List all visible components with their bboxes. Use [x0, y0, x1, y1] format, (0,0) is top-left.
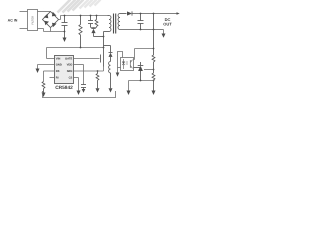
- svg-text:VIN: VIN: [56, 58, 61, 61]
- node C3 bottom: [140, 29, 142, 31]
- optocoupler U2: [121, 58, 134, 71]
- diode D4 aux: [104, 46, 113, 62]
- capacitor C2 snubber: [88, 16, 93, 28]
- wire GND pin: [38, 65, 55, 69]
- wire Q1 source: [103, 67, 105, 72]
- transformer T1 core: [114, 14, 116, 34]
- wire opto emitter: [118, 67, 121, 69]
- resistor R3 FB: [42, 82, 45, 93]
- ground CS pin: [77, 91, 81, 96]
- bridge rectifier BD1: [43, 12, 59, 28]
- transformer T1 secondary: [118, 14, 164, 30]
- resistor R5 divider upper: [152, 14, 155, 74]
- ground GND pin: [36, 69, 40, 74]
- node startup junction: [80, 47, 82, 49]
- ground primary at C1: [63, 38, 67, 43]
- wire filter to bridge top: [38, 11, 51, 13]
- wire FB pin: [44, 71, 55, 82]
- resistor R1 startup: [79, 16, 82, 48]
- wire bridge + output to rail: [59, 16, 61, 20]
- svg-text:CR5842: CR5842: [55, 85, 73, 91]
- watermark diagonal stripes: [58, 0, 101, 13]
- capacitor C4 VDD: [81, 85, 86, 90]
- node C2 rail: [90, 15, 92, 17]
- node LED bias: [153, 48, 155, 50]
- svg-text:SEN: SEN: [67, 70, 73, 73]
- ground R4: [96, 88, 100, 92]
- label DC OUT: [163, 17, 172, 26]
- node drain tap: [103, 47, 105, 49]
- wire VDD pin: [74, 65, 84, 85]
- wire opto collector loop: [118, 52, 123, 73]
- ground divider bottom: [152, 91, 156, 96]
- ground secondary output: [163, 30, 165, 34]
- ground opto emitter: [116, 73, 120, 77]
- svg-text:FB: FB: [56, 70, 60, 73]
- node C3 top: [140, 13, 142, 15]
- transformer T1 primary: [104, 16, 112, 53]
- wire TL431 ref: [144, 69, 154, 71]
- svg-text:GATE: GATE: [65, 58, 72, 61]
- TL431 U3: [134, 62, 144, 81]
- resistor R2 snubber: [95, 16, 98, 28]
- EMI filter block F1: [28, 10, 38, 31]
- resistor R6 divider lower: [152, 73, 155, 91]
- wire RI pin stub: [50, 77, 55, 79]
- node C1 minus bus: [64, 31, 66, 33]
- node R1 rail: [80, 15, 82, 17]
- ground R3: [42, 93, 46, 98]
- node snubber drain: [103, 36, 105, 38]
- node C1 rail: [64, 15, 66, 17]
- wire startup to VIN pin: [47, 48, 104, 59]
- wire AC input bottom: [20, 28, 28, 30]
- wire GATE pin: [74, 58, 100, 60]
- ground feedback left: [127, 91, 131, 96]
- node divider tap: [153, 69, 155, 71]
- svg-text:RI: RI: [56, 77, 59, 80]
- node R2 rail: [96, 15, 98, 17]
- transistor Q1 MOSFET: [101, 53, 104, 67]
- ground aux winding: [109, 88, 113, 92]
- wire bridge - bus: [44, 28, 65, 32]
- wire filter to bridge bottom: [38, 29, 44, 32]
- wire TL431 anode rail: [129, 80, 154, 82]
- svg-text:FILTER: FILTER: [31, 16, 34, 25]
- svg-text:CS: CS: [69, 77, 73, 80]
- inductor W3 aux winding: [109, 62, 111, 89]
- capacitor C1 bulk: [62, 16, 68, 38]
- ground C4: [82, 89, 86, 93]
- node divider top: [153, 13, 155, 15]
- wire opto LED anode: [134, 49, 154, 60]
- wire AC input top: [20, 11, 28, 13]
- wire opto LED return ground: [128, 81, 130, 91]
- diode D2 snubber: [91, 29, 103, 37]
- wire snubber bottom: [91, 28, 97, 29]
- wire DC bus rail: [61, 15, 108, 17]
- node TL431 anode: [140, 80, 142, 82]
- wire CS pin ground: [74, 78, 79, 91]
- node R4 tap: [97, 70, 99, 72]
- svg-text:OUT: OUT: [163, 21, 172, 26]
- wire SEN pin: [74, 70, 104, 72]
- node anode rail right: [153, 80, 155, 82]
- svg-text:GND: GND: [56, 64, 62, 67]
- terminal DC OUT arrow: [177, 12, 180, 14]
- svg-text:VDD: VDD: [67, 64, 73, 67]
- svg-text:AC IN: AC IN: [8, 19, 18, 23]
- diode D3 output rectifier: [127, 11, 177, 15]
- IC U1 CR5842: [55, 56, 74, 84]
- capacitor C3 output: [138, 14, 144, 30]
- node divider secondary return: [153, 29, 155, 31]
- resistor R4 sense: [96, 71, 99, 88]
- wire primary ground rail: [43, 91, 116, 98]
